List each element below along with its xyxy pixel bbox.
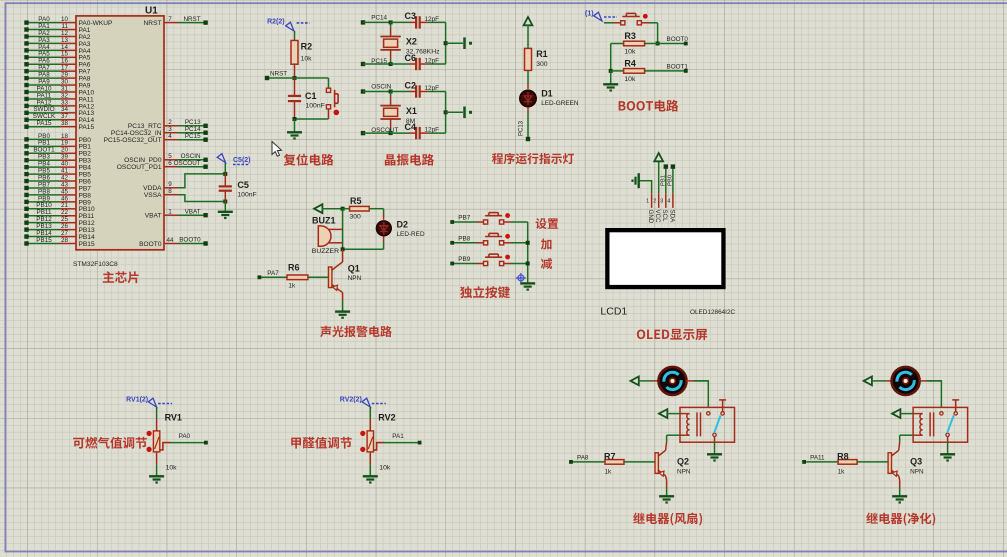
svg-text:RV1(2): RV1(2) [126,397,148,404]
svg-text:1: 1 [646,199,649,205]
svg-text:LCD1: LCD1 [600,306,627,318]
svg-text:RV2: RV2 [378,413,395,423]
svg-text:NPN: NPN [677,469,691,476]
svg-text:300: 300 [536,61,548,68]
svg-text:PA13: PA13 [79,110,95,117]
svg-text:22: 22 [61,209,69,216]
svg-text:8: 8 [168,188,172,195]
svg-text:R8: R8 [837,451,849,461]
svg-text:C2: C2 [405,80,417,90]
svg-text:GND: GND [647,210,654,224]
svg-text:R4: R4 [624,58,636,68]
svg-text:1k: 1k [288,283,296,290]
svg-text:PA7: PA7 [79,69,91,76]
svg-text:SWDIO: SWDIO [33,106,54,113]
svg-text:2: 2 [653,199,656,205]
svg-text:Q3: Q3 [910,457,922,467]
svg-text:3: 3 [168,126,172,133]
svg-text:PC14: PC14 [185,126,201,133]
svg-text:BOOT1: BOOT1 [667,63,689,70]
svg-text:R2(2): R2(2) [267,18,285,25]
svg-text:PB5: PB5 [79,172,92,179]
svg-text:PC15: PC15 [371,58,387,65]
svg-text:11: 11 [61,23,68,30]
svg-text:D2: D2 [397,219,409,229]
svg-text:PA7: PA7 [38,65,50,72]
svg-text:OSCOUT: OSCOUT [371,127,398,134]
svg-text:28: 28 [61,237,69,244]
svg-text:PC14-OSC32_IN: PC14-OSC32_IN [111,130,162,137]
svg-text:Q2: Q2 [677,457,689,467]
svg-text:12pF: 12pF [425,16,440,23]
svg-text:STM32F103C8: STM32F103C8 [73,261,118,268]
svg-text:PA12: PA12 [37,99,52,106]
svg-text:OSCOUT: OSCOUT [174,160,201,167]
svg-text:34: 34 [61,106,69,113]
svg-text:BUZZER: BUZZER [312,248,339,255]
svg-text:Q1: Q1 [348,264,360,274]
svg-text:32.768KHz: 32.768KHz [406,49,440,56]
svg-text:40: 40 [61,161,69,168]
svg-text:PC15-OSC32_OUT: PC15-OSC32_OUT [104,137,162,144]
svg-text:PA7: PA7 [267,270,279,277]
svg-text:PA8: PA8 [577,454,589,461]
svg-text:NRST: NRST [270,71,287,78]
svg-text:PB5: PB5 [38,168,50,175]
svg-text:100nF: 100nF [306,103,325,110]
svg-text:BOOT0: BOOT0 [179,237,201,244]
svg-text:PA1: PA1 [79,27,91,34]
svg-text:U1: U1 [145,6,158,17]
svg-text:33: 33 [61,99,69,106]
svg-text:300: 300 [350,214,362,221]
svg-text:D1: D1 [541,89,553,99]
svg-text:10k: 10k [166,465,178,472]
svg-text:17: 17 [61,65,69,72]
svg-text:C5(2): C5(2) [233,157,251,164]
svg-text:4: 4 [168,133,172,140]
svg-text:25: 25 [61,216,69,223]
svg-text:PC13: PC13 [519,120,525,136]
svg-text:PB12: PB12 [79,220,95,227]
svg-text:OLED12864I2C: OLED12864I2C [690,309,736,316]
svg-text:16: 16 [61,58,69,65]
svg-text:PA0-WKUP: PA0-WKUP [79,20,114,27]
svg-text:42: 42 [61,174,69,181]
svg-text:R2: R2 [301,42,313,52]
svg-text:R1: R1 [536,49,548,59]
svg-text:44: 44 [166,237,174,244]
svg-text:PA15: PA15 [37,120,52,127]
svg-text:PA1: PA1 [38,23,50,30]
svg-text:BUZ1: BUZ1 [312,216,336,226]
svg-text:OSCOUT_PD1: OSCOUT_PD1 [117,164,162,171]
svg-text:R6: R6 [288,263,300,273]
svg-text:PB9: PB9 [458,256,470,263]
svg-text:SCL: SCL [661,210,668,223]
svg-text:PA11: PA11 [810,454,825,461]
svg-text:PC15: PC15 [185,133,201,140]
svg-text:R7: R7 [604,451,616,461]
svg-text:PB12: PB12 [36,216,52,223]
svg-text:PB6: PB6 [79,178,92,185]
svg-text:10k: 10k [301,56,313,63]
svg-text:PB4: PB4 [79,165,92,172]
svg-text:NPN: NPN [910,469,924,476]
svg-text:NPN: NPN [348,275,362,282]
svg-text:OSCIN: OSCIN [371,84,391,91]
svg-text:PB8: PB8 [458,235,470,242]
svg-text:41: 41 [61,168,69,175]
svg-text:10k: 10k [624,49,636,56]
svg-text:NRST: NRST [144,20,162,27]
svg-text:PC14: PC14 [371,14,387,21]
svg-text:PA1: PA1 [392,433,404,440]
svg-text:VCC: VCC [654,210,661,224]
svg-text:100nF: 100nF [237,192,256,199]
svg-text:PB0: PB0 [667,175,673,186]
svg-text:X2: X2 [406,37,417,47]
svg-text:R5: R5 [350,196,362,206]
svg-text:8M: 8M [406,118,416,125]
svg-text:12pF: 12pF [425,85,440,92]
svg-text:PA6: PA6 [79,62,91,69]
svg-text:VBAT: VBAT [185,208,201,215]
svg-text:PA12: PA12 [79,103,95,110]
svg-text:LED-GREEN: LED-GREEN [541,100,579,107]
svg-text:VSSA: VSSA [144,192,162,199]
svg-text:PB15: PB15 [79,241,95,248]
svg-text:PA0: PA0 [38,16,50,23]
svg-text:1: 1 [168,209,172,216]
svg-text:BOOT0: BOOT0 [139,241,162,248]
svg-text:10k: 10k [624,76,636,83]
svg-text:SDA: SDA [668,210,675,224]
svg-text:38: 38 [61,120,69,127]
svg-text:VBAT: VBAT [145,213,162,220]
svg-text:C5: C5 [237,180,249,190]
svg-text:(1): (1) [585,11,594,18]
svg-text:C1: C1 [305,91,317,101]
svg-text:1k: 1k [605,469,613,476]
svg-text:RV2(2): RV2(2) [340,397,362,404]
svg-text:PB11: PB11 [79,213,95,220]
svg-text:7: 7 [168,16,172,23]
svg-text:12pF: 12pF [425,127,440,134]
svg-text:C3: C3 [405,11,417,21]
svg-text:3: 3 [660,199,663,205]
svg-text:10k: 10k [379,465,391,472]
svg-text:PA0: PA0 [179,433,191,440]
svg-text:PB6: PB6 [38,174,50,181]
svg-text:PB11: PB11 [37,209,52,216]
svg-text:12pF: 12pF [425,58,440,65]
svg-text:1k: 1k [838,469,846,476]
svg-text:BOOT0: BOOT0 [667,36,689,43]
svg-text:RV1: RV1 [165,413,182,423]
svg-text:PB1: PB1 [660,175,666,186]
svg-text:4: 4 [667,199,670,205]
svg-text:10: 10 [61,16,69,23]
svg-text:6: 6 [168,160,172,167]
svg-text:PB4: PB4 [38,161,50,168]
svg-text:PA6: PA6 [38,58,50,65]
svg-text:LED-RED: LED-RED [397,231,425,238]
svg-text:X1: X1 [406,106,417,116]
svg-text:PB7: PB7 [458,215,470,222]
svg-text:PA15: PA15 [79,124,95,131]
svg-text:R3: R3 [624,31,636,41]
svg-text:PB15: PB15 [36,237,52,244]
svg-text:NRST: NRST [183,16,200,23]
